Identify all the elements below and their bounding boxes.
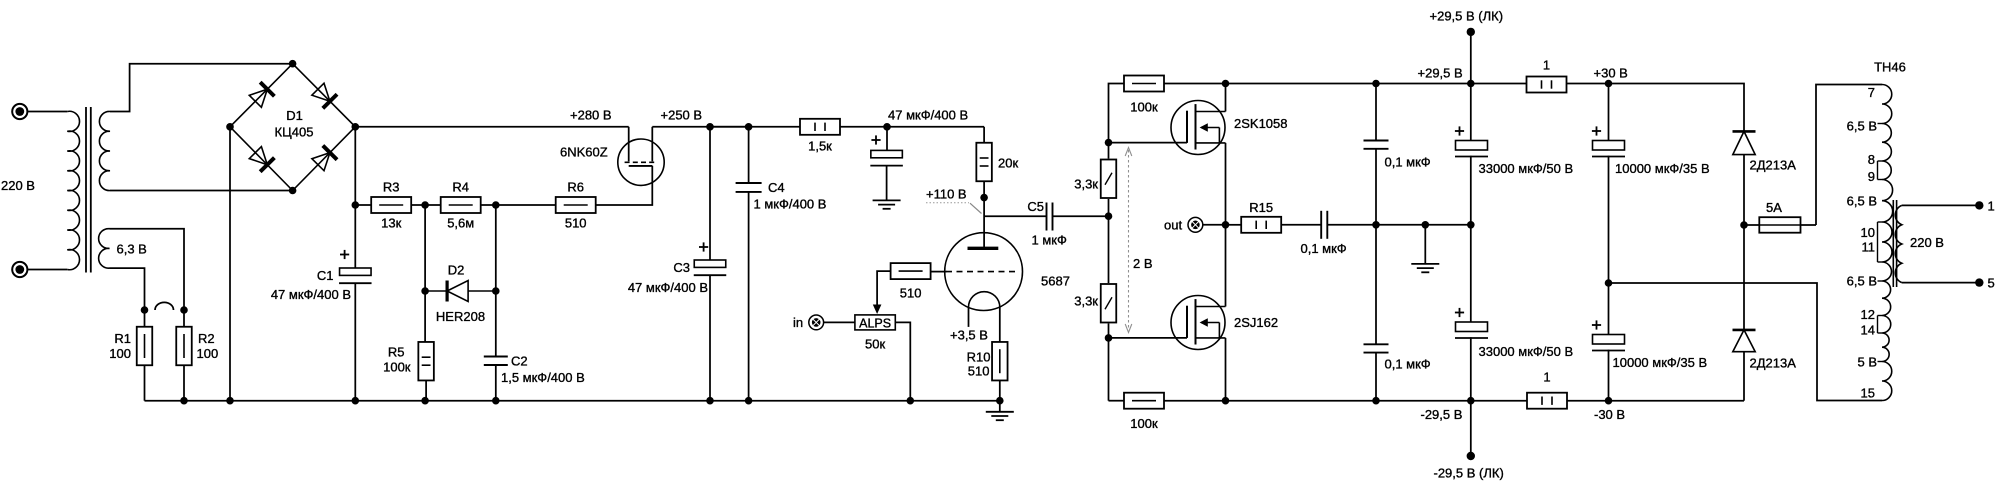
svg-text:1,5 мкФ/400 В: 1,5 мкФ/400 В [501,370,585,385]
svg-text:3,3к: 3,3к [1074,294,1098,309]
tube V2 grid lead [931,271,947,273]
transformer T1 heater winding 6,3 V [99,229,110,269]
capacitor 0,1uF top [1375,84,1377,141]
svg-text:R10: R10 [967,350,991,365]
resistor R15 [1241,217,1281,233]
tube V2 cathode arch [969,292,1000,308]
node 33000uF bottom on rail [1467,397,1475,405]
bias arrow 2V (dashed) [1128,150,1130,330]
svg-text:6,5 В: 6,5 В [1847,194,1877,209]
heater filament arc between R1 and R2 nodes [155,302,174,310]
svg-text:510: 510 [900,286,922,301]
resistor R1 [144,310,146,327]
terminal 1 [1975,201,1983,209]
svg-text:12: 12 [1861,307,1875,322]
resistor R6 [556,197,596,213]
svg-text:0,1 мкФ: 0,1 мкФ [1385,357,1431,372]
node anode +110V [980,194,988,202]
svg-text:5,6м: 5,6м [447,216,474,231]
node ALPS ground [907,397,915,405]
svg-text:R5: R5 [388,345,405,360]
wire junction down to D2 anode line [424,205,426,342]
svg-text:20к: 20к [998,156,1018,171]
node C3 on ground bus [706,397,714,405]
svg-text:R2: R2 [198,331,215,346]
resistor R10 [992,342,1008,381]
svg-text:R1: R1 [114,331,131,346]
svg-text:6,5 В: 6,5 В [1847,274,1877,289]
svg-text:2 В: 2 В [1133,256,1153,271]
svg-text:-29,5 В (ЛК): -29,5 В (ЛК) [1434,466,1504,481]
svg-text:2Д213А: 2Д213А [1750,158,1797,173]
wire 10000uF bottom to -30V rail [1608,350,1610,401]
transformer TN46 primary 220V winding [1895,205,1902,282]
svg-text:10: 10 [1861,225,1875,240]
resistor R5 [418,342,434,381]
transistor Q1 2SK1058 [1171,101,1225,155]
node 33000uF mid [1467,221,1475,229]
tube V2 cathode free lead +3,5V [968,307,970,327]
svg-text:5: 5 [1988,276,1995,291]
wire secondary HV bottom to bridge bottom node [110,190,293,192]
resistor 100k top [1124,76,1164,92]
svg-text:+29,5 В (ЛК): +29,5 В (ЛК) [1430,9,1504,24]
tube V2 cathode lead to R10 [999,307,1001,342]
node mid ground tap [1422,221,1430,229]
node R4-C2 junction [492,201,500,209]
node C4 on ground bus [745,397,753,405]
wire 20k to tube anode [983,182,985,249]
wire bridge plus to +280V rail [355,126,628,128]
svg-text:6,5 В: 6,5 В [1847,119,1877,134]
svg-text:1: 1 [1543,58,1550,73]
tube V1 6NK60Z envelope [618,139,664,185]
resistor R3 [371,197,411,213]
svg-text:ТН46: ТН46 [1874,60,1906,75]
svg-text:100к: 100к [1130,416,1158,431]
wire R2 bottom to ground bus [183,365,185,401]
wire Q2 source down to -29,5V rail [1225,338,1227,401]
wire 33000uF bottom to -29,5V rail [1470,337,1472,401]
fuse 5A [1744,224,1816,226]
capacitor C2 1,5uF/400V [484,356,508,358]
wire grid stopper to ALPS wiper [877,271,891,305]
svg-text:50к: 50к [865,337,885,352]
node D2 left [421,287,429,295]
transistor Q2 2SJ162 [1171,296,1225,350]
svg-text:14: 14 [1861,323,1875,338]
svg-text:5687: 5687 [1041,274,1070,289]
svg-text:47 мкФ/400 В: 47 мкФ/400 В [888,108,968,123]
ground symbol near decoupling cap [873,199,901,201]
svg-text:6,3 В: 6,3 В [117,242,147,257]
svg-text:out: out [1164,218,1182,233]
resistor 3,3k top [1101,160,1117,199]
svg-text:220 В: 220 В [1,178,35,193]
wire bridge minus (left node) down to ground bus [229,127,231,401]
svg-text:in: in [793,315,803,330]
wire 10000uF top to mid node [1608,156,1610,283]
svg-text:510: 510 [565,216,587,231]
svg-text:0,1 мкФ: 0,1 мкФ [1301,241,1347,256]
diode VD2 2D213A bottom [1733,329,1756,332]
svg-text:C3: C3 [673,260,690,275]
svg-text:13к: 13к [381,216,401,231]
node -30V [1605,397,1613,405]
wire TN46 primary top to terminal 1 [1902,204,1976,206]
tube V1 cathode [629,165,653,167]
svg-text:15: 15 [1861,386,1875,401]
capacitor 33000uF/50V top [1470,84,1472,141]
node 10000uF mid [1605,279,1613,287]
wire anode to C5 [984,215,1046,217]
svg-text:+110 В: +110 В [926,187,967,202]
input jack [809,315,824,330]
wire 100k bottom to source node [1164,400,1226,402]
svg-text:+29,5 В: +29,5 В [1418,66,1463,81]
output jack [1188,217,1203,232]
node right rail bottom [1372,397,1380,405]
svg-text:8: 8 [1868,152,1875,167]
svg-text:5А: 5А [1766,200,1782,215]
bridge diode D1a (left to top) [249,89,267,107]
svg-text:+280 В: +280 В [570,108,612,123]
svg-text:1: 1 [1988,199,1995,214]
capacitor 10000uF/35V top [1608,84,1610,141]
svg-text:2SJ162: 2SJ162 [1234,315,1278,330]
node 47uF decoupling cap top [883,123,891,131]
transformer T1 core [85,107,87,273]
TN46 jumper pins 10-11 [1877,222,1879,262]
wire 20k down from rail [983,127,985,143]
diode VD1 2D213A top [1743,84,1745,132]
wire R3 to R4 [411,204,442,206]
tube V1 grid lead from +250V [651,127,653,162]
wire R5 bottom to ground bus [425,381,427,401]
wire 6,3V bottom lead to node R1 [110,268,145,310]
node bridge minus on ground bus [226,397,234,405]
svg-text:R6: R6 [567,180,584,195]
node right rail mid [1372,221,1380,229]
svg-text:1 мкФ/400 В: 1 мкФ/400 В [754,197,827,212]
node gate bottom on rail [1105,334,1113,342]
svg-text:47 мкФ/400 В: 47 мкФ/400 В [271,287,351,302]
capacitor C4 1uF/400V [748,127,750,183]
node heater left [141,306,149,314]
wire +29,5V rail top [1226,83,1743,85]
svg-text:0,1 мкФ: 0,1 мкФ [1385,155,1431,170]
node C4 top [745,123,753,131]
svg-text:33000 мкФ/50 В: 33000 мкФ/50 В [1479,161,1574,176]
svg-text:C2: C2 [511,354,528,369]
ground symbol main bus [999,401,1001,412]
node R2 on ground bus [180,397,188,405]
wire Q1 source down to out node [1225,143,1227,307]
transformer TN46 secondary winding with taps [1882,85,1893,401]
node right rail top [1372,80,1380,88]
capacitor 0,1uF bottom [1375,225,1377,344]
svg-text:C4: C4 [768,180,785,195]
svg-text:47 мкФ/400 В: 47 мкФ/400 В [628,280,708,295]
wire mid ground stub [1424,225,1426,264]
svg-text:6NK60Z: 6NK60Z [560,145,608,160]
capacitor C3 47uF/400V [709,127,711,260]
mid rail wire (0V) [1376,224,1472,226]
svg-text:11: 11 [1862,240,1876,255]
svg-text:ALPS: ALPS [859,316,891,330]
wire 6,3V top lead to node R2 [110,229,185,310]
TN46 jumper pins 8-9 [1877,161,1879,180]
wire ALPS right to ground bus [895,322,910,400]
ALPS wiper arrow [873,305,882,315]
wire C1 bottom to ground bus [354,283,356,401]
svg-text:33000 мкФ/50 В: 33000 мкФ/50 В [1479,344,1574,359]
node bridge right [352,123,360,131]
node 33000uF top on rail [1467,80,1475,88]
svg-text:2Д213А: 2Д213А [1750,356,1797,371]
input terminal bottom (220 V) [12,262,27,277]
TN46 tap ticks [1878,123,1883,125]
node bridge top [289,60,297,68]
wire secondary HV top to bridge top node [110,64,293,112]
capacitor 10000uF/35V bottom [1608,283,1610,335]
transformer T1 secondary HV winding [99,111,110,190]
TN46 jumper pins 12-14 [1877,316,1879,334]
svg-text:R4: R4 [452,180,469,195]
svg-text:100к: 100к [383,360,411,375]
node Q2 source on -29,5V rail [1222,397,1230,405]
bridge diode D1b (top to right) [312,83,330,101]
svg-text:2SK1058: 2SK1058 [1234,116,1288,131]
resistor R4 [441,197,481,213]
wire out node to R15 [1226,224,1242,226]
wire -29,5V rail bottom [1226,400,1745,402]
resistor R2 [183,310,185,327]
svg-text:+30 В: +30 В [1594,66,1628,81]
svg-text:+250 В: +250 В [661,108,703,123]
resistor 510 grid stopper [891,263,931,279]
svg-text:D2: D2 [448,263,465,278]
resistor 100k bottom [1124,393,1164,409]
capacitor C1 47uF/400V [340,268,372,275]
wire Q2 gate to rail [1109,337,1188,339]
svg-text:100к: 100к [1130,100,1158,115]
wire Q1 drain up [1225,84,1227,112]
wire 1,5k to 20k corner [840,126,984,128]
leader line +110V [926,202,969,204]
wire input terminal bottom to transformer primary [27,269,67,271]
wire +250V rail to C3 node [652,126,748,128]
wire C3 node to C4 node [710,126,749,128]
node heater right [180,306,188,314]
node R3 tap on C1 wire [352,201,360,209]
wire R4 to R6 [480,204,556,206]
wire 100k top to drain node [1164,83,1226,85]
svg-text:C5: C5 [1027,199,1044,214]
svg-text:C1: C1 [317,268,334,283]
node R3-R4 junction [421,201,429,209]
svg-text:HER208: HER208 [436,309,485,324]
capacitor 33000uF/50V bottom [1470,225,1472,322]
svg-text:10000 мкФ/35 В: 10000 мкФ/35 В [1615,161,1710,176]
node bridge bottom [289,187,297,195]
svg-text:-30 В: -30 В [1594,407,1625,422]
ground bus wire (main negative rail) [145,400,1000,402]
wire R1 bottom to ground bus [144,365,146,401]
node gate top on rail [1105,139,1113,147]
input terminal top (220 V) [12,104,27,119]
terminal 5 [1975,278,1983,286]
wire 10000uF mid to TN46 pin 15 [1609,283,1883,401]
wire R6 to tube cathode [596,166,653,205]
node R5 on ground bus [421,397,429,405]
gate bias rail left [1109,84,1125,159]
svg-text:1: 1 [1543,370,1550,385]
bridge rectifier D1 KC405 outline [230,64,355,191]
svg-text:100: 100 [109,346,131,361]
svg-text:R3: R3 [383,180,400,195]
tube V1 grid (dashed) [625,161,657,163]
svg-text:1,5к: 1,5к [808,139,832,154]
wire R15 to zobel cap [1281,224,1321,226]
svg-text:100: 100 [197,346,219,361]
svg-text:+3,5 В: +3,5 В [950,328,988,343]
potentiometer ALPS 50k [855,315,895,330]
svg-text:5 В: 5 В [1857,355,1877,370]
capacitor 47uF/400V decoupling [886,127,888,151]
svg-text:9: 9 [1868,169,1875,184]
wire out node to jack [1203,224,1226,226]
resistor 3,3k bottom [1101,284,1117,323]
resistor 1,5k [800,119,840,135]
transformer T1 primary winding [67,111,79,269]
wire fuse to TN46 pin 7 [1816,85,1882,226]
wire C1 node to R3 [355,204,371,206]
resistor 1 ohm top [1527,77,1567,93]
wire C2 bottom to ground bus [495,365,497,401]
ground symbol mid [1411,263,1439,265]
node D2 right [492,287,500,295]
terminal -29,5V (LK) [1470,401,1472,456]
resistor 20k [976,143,992,182]
svg-text:R15: R15 [1249,200,1273,215]
tube V2 anode plate [968,247,999,250]
wire R4 junction down to C2 [495,205,497,357]
wire bridge plus down to C1 [354,127,356,268]
capacitor C5 1uF [1046,203,1048,231]
wire ALPS left to input jack [824,321,855,323]
wire input terminal top to transformer primary [27,111,67,113]
wire 33000uF top to 0V line [1470,156,1472,225]
capacitor 0,1uF zobel [1320,211,1322,239]
node +30V [1605,80,1613,88]
node out [1222,221,1230,229]
node R10 ground [996,397,1004,405]
svg-text:510: 510 [968,364,990,379]
svg-text:10000 мкФ/35 В: 10000 мкФ/35 В [1613,355,1708,370]
svg-text:7: 7 [1868,85,1875,100]
node diode-fuse junction [1740,221,1748,229]
svg-text:КЦ405: КЦ405 [275,125,314,140]
node C1 on ground bus [352,397,360,405]
wire C4 node to 1,5k resistor [749,126,800,128]
wire C5 to gate divider rail [1053,215,1109,217]
tube V2 grid (dashed) [946,271,1016,273]
wire TN46 primary bottom to terminal 5 [1902,282,1976,284]
node C3 top [706,123,714,131]
svg-text:1 мкФ: 1 мкФ [1032,233,1067,248]
svg-text:-29,5 В: -29,5 В [1421,407,1463,422]
bridge diode D1c (left to bottom) [249,147,267,165]
svg-text:D1: D1 [286,108,303,123]
node Q1 drain on +29,5V rail [1222,80,1230,88]
wire zobel cap to right rail [1327,224,1376,226]
tube V1 anode lead from +280V [628,127,630,162]
transformer TN46 core [1892,200,1894,287]
node C2 on ground bus [492,397,500,405]
wire Q1 gate to rail [1109,142,1188,144]
tube V2 5687 envelope [945,233,1023,311]
diode D2 HER208 [425,290,447,292]
wire R10 to ground bus [999,381,1001,401]
node bridge left [226,123,234,131]
wire decoupling cap to ground symbol [886,166,888,201]
svg-text:220 В: 220 В [1910,235,1944,250]
node C5 on rail [1105,212,1113,220]
wire diode top chain down to VD2 [1743,225,1745,330]
resistor 1 ohm bottom [1527,393,1567,409]
wire C3 bottom to ground bus [709,275,711,401]
svg-text:3,3к: 3,3к [1074,177,1098,192]
bridge diode D1d (bottom to right) [312,153,330,171]
